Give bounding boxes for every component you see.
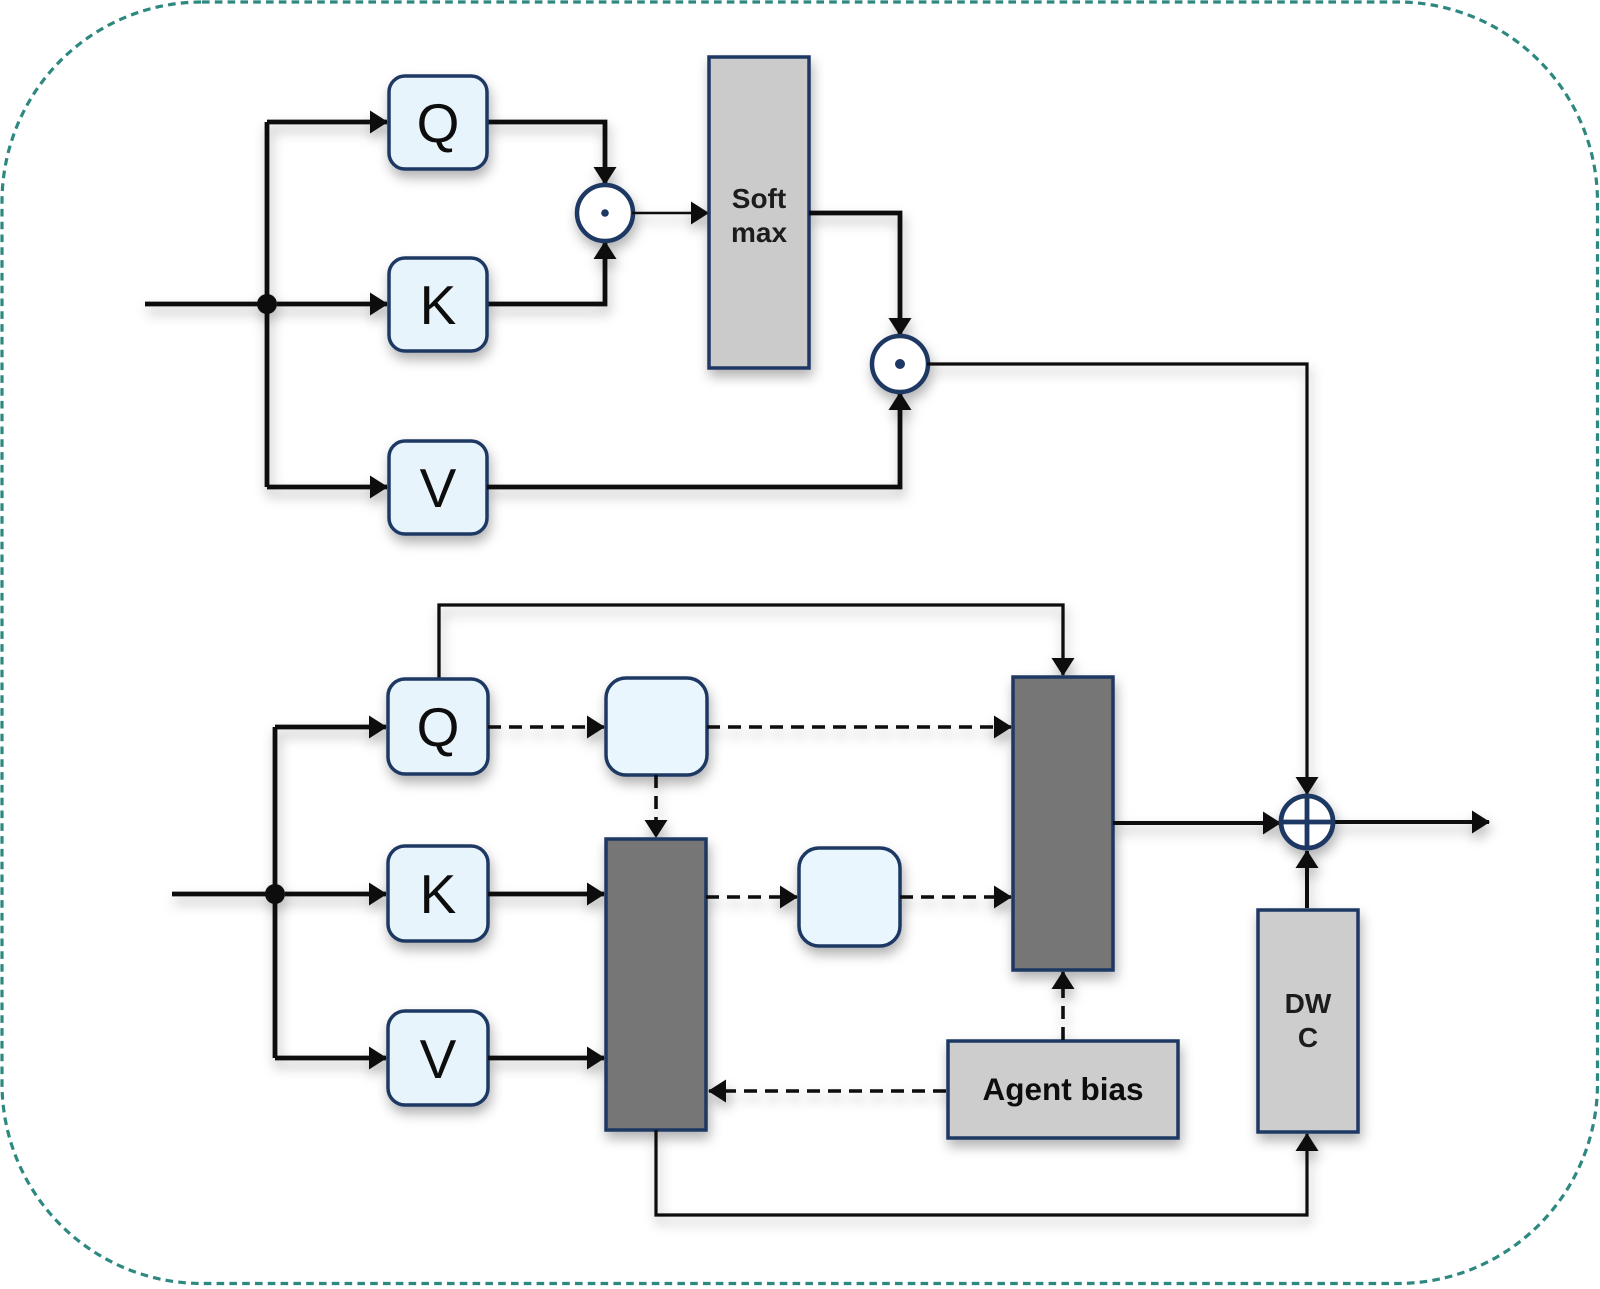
svg-text:Agent bias: Agent bias <box>982 1071 1143 1107</box>
svg-text:C: C <box>1298 1022 1318 1053</box>
svg-text:Q: Q <box>417 696 460 758</box>
svg-text:Q: Q <box>417 92 460 154</box>
svg-text:K: K <box>420 863 457 925</box>
svg-text:V: V <box>420 457 457 519</box>
svg-text:max: max <box>731 217 787 248</box>
svg-text:DW: DW <box>1285 988 1332 1019</box>
svg-text:K: K <box>420 274 457 336</box>
svg-text:Soft: Soft <box>732 183 786 214</box>
svg-text:V: V <box>420 1028 457 1090</box>
